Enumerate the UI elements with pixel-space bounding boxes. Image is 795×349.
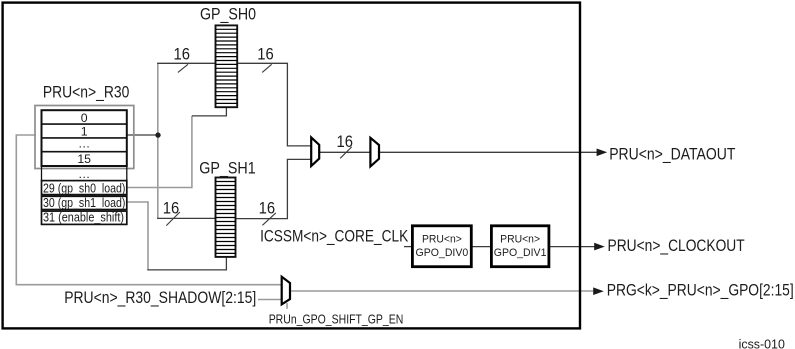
svg-text:31 (enable_shift): 31 (enable_shift) [43, 211, 124, 225]
svg-text:PRU<n>: PRU<n> [422, 233, 462, 245]
svg-text:PRU<n>_CLOCKOUT: PRU<n>_CLOCKOUT [608, 237, 745, 255]
svg-text:16: 16 [259, 199, 276, 218]
svg-text:15: 15 [77, 152, 91, 166]
svg-text:30 (gp_sh1_load): 30 (gp_sh1_load) [43, 196, 125, 210]
svg-text:16: 16 [163, 198, 180, 217]
svg-text:16: 16 [174, 44, 191, 63]
svg-text:16: 16 [257, 44, 274, 63]
svg-text:ICSSM<n>_CORE_CLK: ICSSM<n>_CORE_CLK [260, 228, 408, 246]
svg-text:…: … [78, 167, 90, 181]
svg-text:GP_SH1: GP_SH1 [199, 160, 255, 178]
svg-text:PRUn_GPO_SHIFT_GP_EN: PRUn_GPO_SHIFT_GP_EN [269, 312, 404, 326]
svg-text:0: 0 [81, 111, 88, 125]
svg-text:…: … [78, 137, 90, 151]
svg-text:PRU<n>_DATAOUT: PRU<n>_DATAOUT [609, 145, 735, 163]
svg-text:GP_SH0: GP_SH0 [200, 6, 256, 24]
svg-text:PRU<n>_R30: PRU<n>_R30 [43, 84, 129, 102]
svg-text:PRU<n>: PRU<n> [500, 233, 540, 245]
svg-text:PRG<k>_PRU<n>_GPO[2:15]: PRG<k>_PRU<n>_GPO[2:15] [607, 282, 794, 300]
svg-text:icss-010: icss-010 [739, 337, 785, 349]
svg-text:29 (gp_sh0_load): 29 (gp_sh0_load) [43, 182, 125, 196]
svg-text:PRU<n>_R30_SHADOW[2:15]: PRU<n>_R30_SHADOW[2:15] [64, 289, 256, 307]
svg-text:GPO_DIV1: GPO_DIV1 [494, 247, 547, 259]
svg-text:GPO_DIV0: GPO_DIV0 [416, 247, 469, 259]
svg-text:16: 16 [337, 132, 354, 151]
